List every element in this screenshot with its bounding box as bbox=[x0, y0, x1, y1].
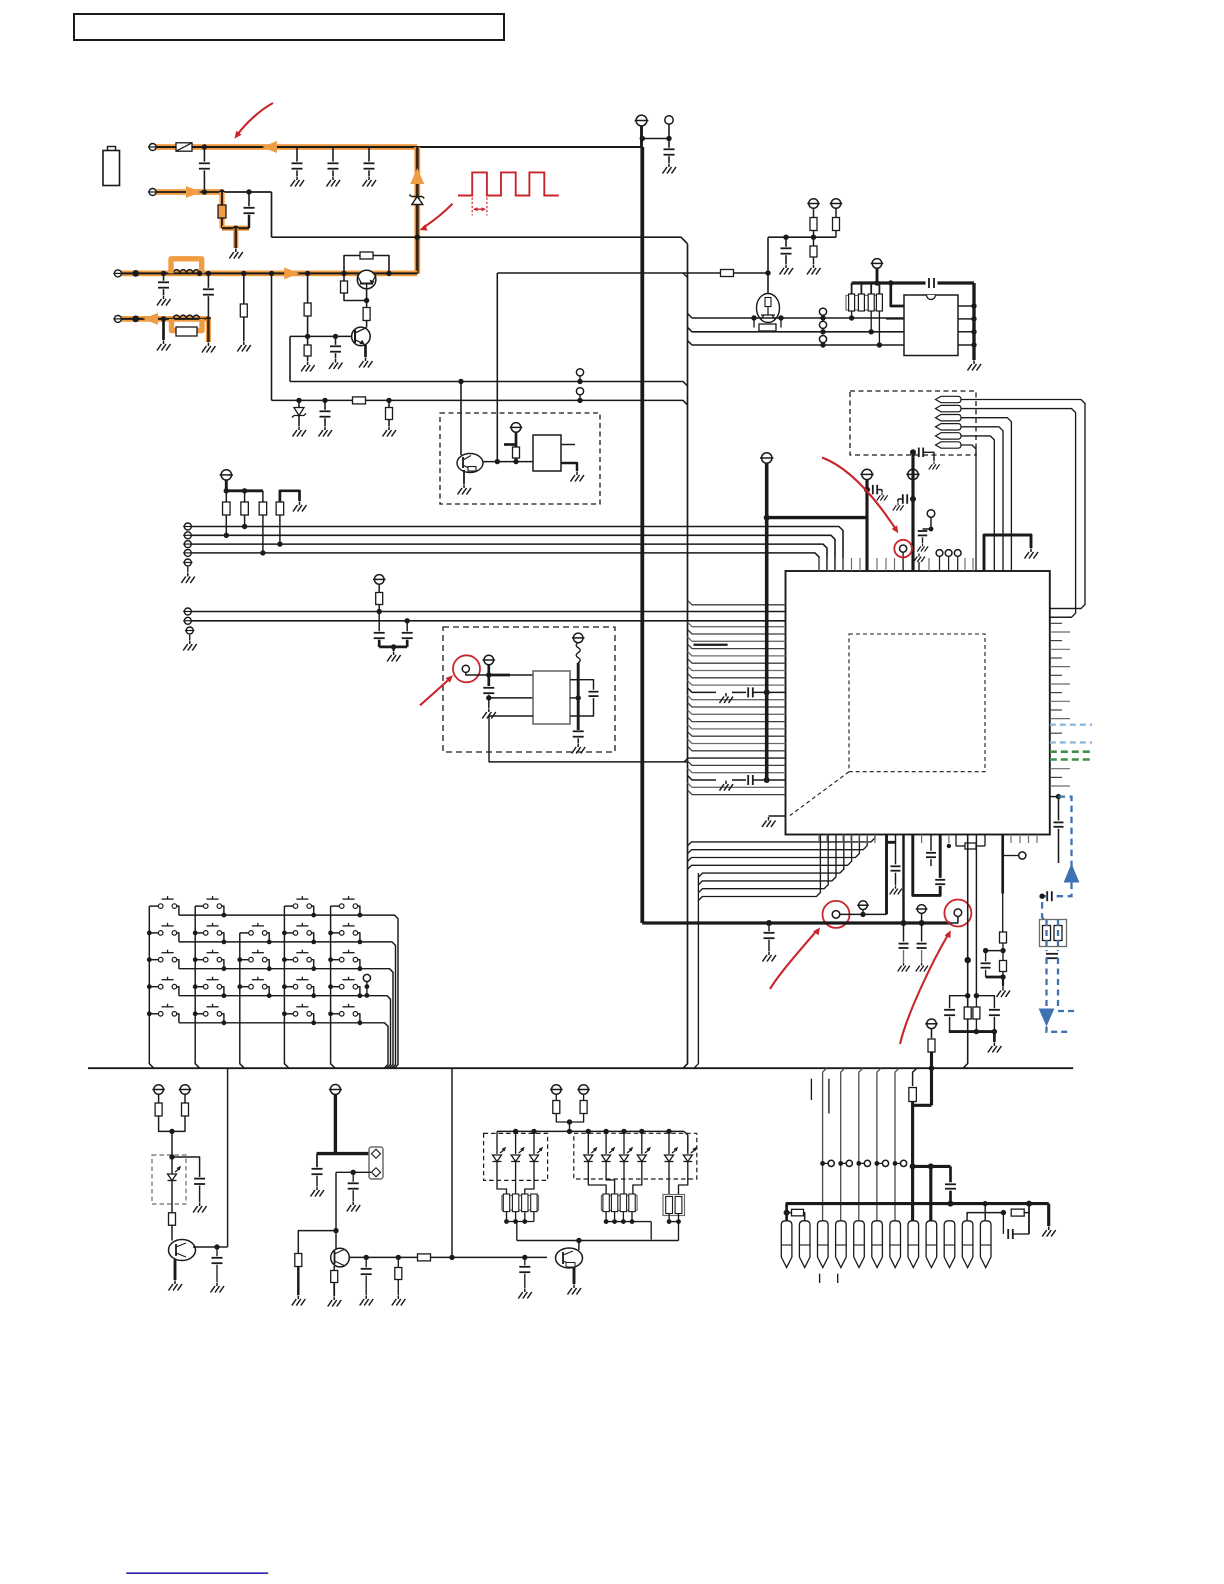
wire below to ground bbox=[488, 698, 490, 708]
IC right pin y701 bbox=[1050, 700, 1070, 702]
node x497 y461 bbox=[495, 459, 500, 464]
dashed box oscillator X1 bbox=[440, 413, 600, 504]
wire mic feed vertical x768 bbox=[767, 237, 769, 294]
IC right pin green y751.7 bbox=[1050, 750, 1092, 753]
ground for C4 bbox=[363, 177, 377, 187]
keypad row 4 switches bbox=[149, 986, 158, 988]
terminal T9 bbox=[831, 199, 841, 209]
keypad row 5 switches bbox=[149, 1013, 158, 1015]
capacitor C5 x249 bbox=[248, 192, 250, 206]
U3 pin1 wire thick bbox=[891, 283, 904, 306]
IC left pin 17 y722 bbox=[688, 717, 786, 722]
IC left pin 12 y685 bbox=[688, 681, 786, 686]
blue bottom L bbox=[1047, 1027, 1072, 1032]
node bank x244 bbox=[242, 488, 247, 493]
ground C31 bbox=[193, 1203, 207, 1213]
contact pin 5 bbox=[936, 433, 962, 439]
thick corner down x974 bbox=[972, 283, 975, 360]
red arrow 2 to x417 bbox=[424, 204, 453, 228]
dashed box PLL X2 bbox=[443, 627, 615, 752]
resistor pack RP1 bbox=[502, 1196, 539, 1211]
node trunk x921 bbox=[919, 920, 925, 926]
wire line1 black core bbox=[153, 146, 643, 148]
terminal TPG bbox=[184, 617, 191, 624]
wire line4 orange highlight bbox=[118, 316, 208, 322]
capacitor C19 row y780 bbox=[747, 775, 749, 785]
wire line3 orange highlight bbox=[118, 270, 417, 276]
wire IC pin x976 vertical bbox=[975, 835, 977, 996]
node line3 x307 bbox=[305, 271, 310, 276]
red circle annotation c3 bbox=[453, 655, 480, 682]
testpoint TP931 bbox=[927, 510, 935, 518]
wire IC pin x895 cap gnd bbox=[895, 835, 897, 865]
bus drop vertical x452 bbox=[451, 1068, 453, 1257]
IR LED D3 bbox=[168, 1167, 181, 1181]
node line4 x163 bbox=[161, 316, 166, 321]
terminal TPD bbox=[184, 549, 191, 556]
wire tap to C10 bbox=[642, 138, 669, 140]
resistor R2 x243 bbox=[243, 273, 245, 341]
wire IC pin x903.5 to trunk bbox=[902, 835, 904, 924]
capacitor C37 x950 bbox=[949, 1166, 952, 1182]
wire Q6 emitter thick bbox=[573, 1268, 576, 1285]
thick branch y517 to IC top bbox=[767, 516, 867, 519]
contact wire 4 down x1003 bbox=[961, 427, 1003, 571]
resistor R29 bbox=[397, 1257, 399, 1267]
terminal T18 small bbox=[859, 901, 868, 910]
thick bar y1153 bbox=[317, 1152, 372, 1155]
mic lines y318 bbox=[688, 314, 905, 319]
thick wire T17 vertical bbox=[911, 452, 914, 571]
filter bracket left leg bbox=[950, 996, 968, 1009]
IC left pin 20 y744 bbox=[688, 739, 786, 744]
resistor R10 x389 bbox=[388, 400, 390, 426]
capacitor C33 bbox=[316, 1154, 318, 1168]
thick L pin x1002.7 bbox=[1001, 835, 1004, 894]
resistor R22 x1003 bbox=[1000, 932, 1007, 943]
ground-up pin x919 bbox=[918, 562, 920, 571]
IC left pin 5 y634 bbox=[688, 630, 786, 635]
testpoint above line381 bbox=[579, 376, 581, 382]
node line3 x199 bbox=[197, 271, 202, 276]
node line400 x325 bbox=[322, 398, 327, 403]
IC left pin 24 y773 bbox=[688, 768, 786, 773]
thick wire T14 down bbox=[577, 663, 580, 730]
resistor R17 bbox=[225, 491, 227, 536]
IC left pin 27 y795 bbox=[688, 790, 786, 795]
resistor R6 between Q1 Q2 bbox=[366, 301, 368, 328]
thick hoop R20 bbox=[280, 491, 300, 502]
wire x497 from line273 down to box bbox=[496, 273, 498, 462]
node lineC x279 bbox=[277, 541, 282, 546]
oscillator transistor Q3 shielded bbox=[457, 454, 483, 473]
node U mid bbox=[391, 644, 396, 649]
thick bar y842 under IC bbox=[887, 841, 896, 844]
resistor pack RP3 bbox=[663, 1195, 685, 1216]
terminal TPB bbox=[184, 532, 191, 539]
node x967 y995 bbox=[965, 993, 970, 998]
blue dashed twin verticals bbox=[1045, 958, 1047, 1008]
LED feed line y1131 bbox=[497, 1130, 684, 1132]
capacitor C12 thick y283 bbox=[928, 278, 930, 288]
line E y611.5 to IC bbox=[188, 611, 786, 613]
node line3 x389 bbox=[386, 271, 391, 276]
thick bar y1166 bbox=[913, 1165, 951, 1168]
node x863 y914 bbox=[860, 912, 865, 917]
node line2 x204 bbox=[202, 189, 207, 194]
LED D12 group2 bbox=[687, 1152, 689, 1154]
transistor Q1 bbox=[357, 270, 376, 289]
contact wire 2 to loop x1075 bbox=[961, 409, 1076, 618]
chamfer line273 branch bbox=[683, 273, 688, 278]
IC left pin 14 y700 bbox=[688, 695, 786, 700]
IC left pin 16 y714 bbox=[688, 710, 786, 715]
terminal T16 bbox=[862, 469, 872, 479]
IC right pin y623 bbox=[1050, 622, 1062, 624]
contact wire 3 down x1011 bbox=[961, 418, 1011, 571]
IC left pin 10 y670 bbox=[688, 666, 786, 671]
ground C25 bbox=[898, 963, 910, 972]
array bottom leads bbox=[851, 311, 853, 318]
IC U1 inner dashed die bbox=[849, 634, 985, 772]
red arrow 5 to TP836 bbox=[770, 932, 816, 990]
IC right pin y777 bbox=[1050, 776, 1062, 778]
node feed x569 bbox=[567, 1129, 572, 1134]
ground R2 bbox=[237, 342, 251, 352]
IC bottom staircase pin x875 bbox=[688, 835, 876, 846]
node line381 x580 bbox=[577, 379, 582, 384]
wire T5 down bbox=[515, 432, 518, 462]
node R11 bottom bbox=[513, 459, 518, 464]
connector pin verticals from trunk bbox=[823, 1068, 827, 1221]
dark stub line y644.7 bbox=[694, 644, 728, 646]
LED D11 group2 bbox=[668, 1131, 670, 1154]
blue path through resistors bbox=[1045, 920, 1047, 951]
keypad row 1 switches bbox=[149, 905, 158, 907]
orange arrow left line4 bbox=[143, 313, 158, 325]
node lineE x379 bbox=[377, 609, 382, 614]
ground Q2 bbox=[359, 358, 373, 368]
resistor R26 bbox=[169, 1213, 176, 1226]
node lineA x244 bbox=[242, 524, 247, 529]
pin11 wire resistor R35 bbox=[967, 1213, 1003, 1221]
IC bottom staircase pin x859 bbox=[688, 835, 860, 862]
thick wire T13 to U4 bbox=[489, 674, 510, 677]
capacitor C8 x335 bbox=[335, 336, 337, 344]
capacitor C4 to gnd at x369 bbox=[368, 147, 370, 162]
IC right pin y617.2 bbox=[1050, 616, 1072, 618]
contact wire 5 down x994 bbox=[961, 436, 994, 571]
contact pin 3 bbox=[936, 415, 962, 421]
LED D8 group2 bbox=[605, 1131, 607, 1154]
ground C9 bbox=[319, 427, 333, 437]
wire Q3 emitter gnd bbox=[463, 470, 465, 484]
node line400 x299 bbox=[296, 398, 301, 403]
resistor R23 branch bbox=[1002, 943, 1004, 977]
ground R7 bbox=[301, 362, 315, 372]
capacitor C27 in U right leg bbox=[935, 879, 945, 881]
capacitor C21 left of T17 bbox=[902, 494, 904, 504]
terminal TPH grounded bbox=[186, 627, 193, 634]
node x217 y1247 bbox=[214, 1244, 219, 1249]
ground x208 bbox=[202, 343, 216, 353]
wire x172 down bbox=[171, 1131, 173, 1240]
ground R27 bbox=[292, 1296, 306, 1306]
wire x217 to bus drop x227 bbox=[217, 1246, 228, 1248]
wire line y400 bbox=[272, 400, 688, 405]
terminal T23 bbox=[552, 1085, 562, 1095]
ground hoop bbox=[293, 502, 307, 512]
fuse F1 bbox=[176, 143, 192, 151]
IC bottom staircase pin x828 bbox=[698, 835, 828, 893]
orange arrow right on line2 bbox=[186, 186, 201, 198]
array resistor bar 2 bbox=[858, 294, 864, 311]
resistor R15 under T9 bbox=[835, 208, 837, 237]
ground T14 bbox=[572, 744, 586, 754]
IC left pin 6 y641 bbox=[688, 637, 786, 642]
testpoint TP y345 bbox=[822, 342, 824, 345]
wire x1002 to branch bbox=[1002, 894, 1004, 933]
thick trunk y923 bbox=[642, 921, 950, 924]
branch bar y950 bbox=[986, 950, 1003, 952]
red circled testpoint TP903 bbox=[902, 552, 904, 571]
terminal T24 bbox=[579, 1085, 589, 1095]
capacitor C23 bbox=[918, 530, 928, 532]
IC right pin y710 bbox=[1050, 709, 1062, 711]
testpoint TP1022 bbox=[1003, 855, 1019, 857]
thick bar y977 bbox=[986, 976, 1004, 979]
wire TP836 to x886 bbox=[840, 913, 887, 915]
IC right pin y632 bbox=[1050, 631, 1070, 633]
node lineD x262 bbox=[260, 550, 265, 555]
red circle annotation c2 bbox=[944, 900, 971, 927]
node bank x226 bbox=[224, 488, 229, 493]
mic line y331.8 bbox=[688, 327, 905, 332]
IC right pin y641 bbox=[1050, 640, 1062, 642]
node x172 y1157 bbox=[169, 1154, 174, 1159]
resistor R19 bbox=[262, 491, 264, 553]
pin12 stub bbox=[984, 1204, 986, 1221]
IC left pin 21 y751 bbox=[688, 746, 786, 751]
terminal T15 power bbox=[762, 453, 772, 463]
resistor R5 base of Q1 bbox=[343, 273, 345, 294]
cap C16 parallel right bbox=[578, 680, 593, 690]
node rail x578 bbox=[576, 1238, 581, 1243]
IC left pin 1 y605 bbox=[688, 600, 786, 605]
node line400 x389 bbox=[386, 398, 391, 403]
IC right pin y608.5 bbox=[1050, 608, 1081, 610]
orange bridge under L2 bbox=[172, 319, 203, 331]
node line3 x208 bbox=[206, 271, 211, 276]
node bus x642 y138 bbox=[640, 136, 645, 141]
node line2 x249 bbox=[246, 189, 251, 194]
orange arrow right line3 bbox=[284, 267, 299, 279]
ground Q5 bbox=[328, 1297, 342, 1307]
thick U cap bottoms bbox=[379, 646, 407, 649]
keypad row 1 line bbox=[179, 915, 398, 1068]
capacitor C14 bbox=[406, 621, 408, 632]
node line381 x461 bbox=[458, 379, 463, 384]
node lineF x407 bbox=[405, 618, 410, 623]
IC U4 PLL bbox=[533, 671, 570, 724]
battery BT1 bbox=[108, 147, 116, 152]
wire main vertical bus x642 bbox=[640, 147, 644, 923]
mic leg nodes bbox=[751, 315, 756, 320]
capacitor C6 x163 bbox=[163, 273, 165, 280]
testpoint TP y318 bbox=[822, 315, 824, 318]
keypad testpoint col5 row4 bbox=[363, 974, 370, 981]
node T10 bus bbox=[874, 280, 879, 285]
keypad row 2 switches bbox=[149, 932, 158, 934]
ground C24 bbox=[763, 952, 777, 962]
capacitor C26 x921 below trunk bbox=[921, 923, 923, 942]
node thickline y780 bbox=[764, 777, 770, 783]
IC right pin y769 bbox=[1050, 768, 1070, 770]
LED D7 group2 bbox=[587, 1131, 589, 1154]
wire TP958 to trunk end bbox=[950, 917, 958, 924]
ground Q3 bbox=[458, 485, 472, 495]
wire Q2 base bbox=[290, 335, 352, 337]
wire corner x271 line2 to line237 bbox=[271, 192, 273, 237]
dashed box LED group1 bbox=[484, 1133, 548, 1180]
resistor pack RP2 bbox=[601, 1196, 637, 1211]
node line4 x135 bbox=[132, 316, 139, 323]
IC left pin 4 y627 bbox=[688, 622, 786, 627]
capacitor C30 below pair bbox=[1046, 953, 1058, 955]
ground C36 bbox=[518, 1289, 532, 1299]
blue path left continue bbox=[1042, 896, 1047, 920]
IC left pin 11 y678 bbox=[688, 673, 786, 678]
wire IC pin x886 thick bbox=[885, 835, 888, 915]
wire thick vertical x767 bbox=[765, 463, 769, 780]
keypad row 3 line bbox=[179, 969, 393, 1068]
terminal T3 bbox=[114, 270, 121, 277]
thick wire x930 to pin9 bbox=[929, 1166, 932, 1220]
pack2 pack3 bottoms rail bbox=[605, 1212, 607, 1222]
wire Q4 emitter thick bbox=[174, 1260, 177, 1281]
IC right pin y667 bbox=[1050, 666, 1070, 668]
wire J1 lower pin left bbox=[336, 1171, 371, 1173]
orange bridge over L1 bbox=[171, 259, 202, 274]
LED D6 group1 bbox=[533, 1131, 535, 1154]
bus drop vertical x227 bbox=[227, 1068, 229, 1247]
wire thick vertical x417 orange bbox=[414, 147, 420, 274]
node x353 y1172 bbox=[351, 1170, 356, 1175]
resistor R24 bbox=[158, 1094, 160, 1103]
ground for C2 bbox=[291, 177, 305, 187]
node T17 top y452 bbox=[910, 449, 916, 455]
capacitor C7 x208 to line4 bbox=[207, 273, 209, 287]
IC top gray pins bbox=[818, 558, 820, 571]
blue resistor pair box bbox=[1040, 920, 1067, 947]
ground under bar bbox=[229, 249, 243, 259]
red circled testpoint TP836 bbox=[832, 911, 840, 919]
node x398 y1257 bbox=[396, 1255, 401, 1260]
wire x336 to Q5 bbox=[335, 1231, 337, 1249]
wire Q5 collector line y1257 bbox=[349, 1256, 547, 1258]
terminal T6 top of bus bbox=[636, 115, 647, 126]
wire Q2 emitter to ground bbox=[364, 345, 367, 357]
dashed box LED group2 bbox=[574, 1133, 697, 1179]
contact pin 4 bbox=[936, 424, 962, 430]
pack1 bottoms bbox=[506, 1212, 508, 1222]
inductor L2 line4 bbox=[173, 315, 199, 319]
wire IC pin x931 cap bbox=[930, 835, 932, 851]
ground filter bbox=[988, 1043, 1002, 1053]
ground C10 bbox=[663, 164, 677, 174]
node x452 y1257 bbox=[449, 1255, 454, 1260]
red arrow 1 to line1 bbox=[238, 103, 274, 135]
IC U2 in osc box bbox=[533, 435, 561, 471]
capacitor C36 bbox=[524, 1257, 526, 1265]
connector link dots and circles y1163 bbox=[820, 1161, 825, 1166]
speaker connector J1 bbox=[369, 1147, 383, 1179]
blue arrow up triangle bbox=[1064, 864, 1080, 883]
terminal T22 bbox=[330, 1085, 340, 1095]
node on line1 at x204 bbox=[202, 144, 207, 149]
ground C22 bbox=[929, 462, 940, 470]
red circled testpoint TP958 bbox=[954, 909, 962, 917]
wire y698 to U4 bbox=[489, 697, 533, 699]
IC right pin y693 bbox=[1050, 692, 1062, 694]
resistor array RA1 bbox=[846, 296, 881, 311]
blue stub right y1011 bbox=[1058, 1010, 1078, 1012]
ground x163 line4 bbox=[157, 341, 171, 351]
wire Q4 collector bbox=[193, 1246, 217, 1248]
node line3 x243 bbox=[241, 271, 246, 276]
ground C11 bbox=[780, 265, 794, 275]
keypad row 2 line bbox=[179, 942, 396, 1068]
IC right pin y675 bbox=[1050, 674, 1062, 676]
resistor R12 inline y273 bbox=[721, 270, 734, 277]
capacitor C28 branch bbox=[985, 951, 987, 962]
node line3 x163 bbox=[161, 271, 166, 276]
node x976 y995 bbox=[974, 993, 979, 998]
transistor Q2 bbox=[352, 327, 371, 346]
IC bottom gray pins bbox=[818, 835, 820, 844]
wire black vertical x1058 with cap bbox=[1058, 797, 1060, 821]
4-line group line B y535.3 bbox=[188, 535, 835, 571]
wire line273 mic segment bbox=[497, 272, 768, 274]
red pulse waveform bbox=[458, 172, 559, 195]
wire x461 down into box bbox=[460, 382, 462, 456]
node T13 y675 bbox=[486, 672, 491, 677]
tick marks above pins bbox=[810, 1079, 812, 1100]
ground C34 bbox=[347, 1202, 361, 1212]
resistor R3 x307 bbox=[307, 273, 309, 336]
node rail x976 bbox=[974, 1029, 979, 1034]
dashed box contacts X3 bbox=[850, 391, 976, 455]
wire IC gnd pin y816 bbox=[769, 815, 786, 817]
IC left pin 15 y707 bbox=[688, 703, 786, 708]
resistor R30 inline bbox=[418, 1254, 431, 1261]
terminal T14 coil bbox=[573, 633, 583, 643]
IC U3 8pin bbox=[904, 295, 958, 356]
IC U1 main body bbox=[786, 571, 1050, 835]
decoupling pin row y692 bbox=[688, 688, 717, 693]
terminal bank thick bus y490 bbox=[226, 489, 263, 492]
terminal T20 bbox=[154, 1085, 164, 1095]
wire to C31 bbox=[172, 1157, 200, 1177]
LED D10 group2 bbox=[641, 1131, 643, 1154]
contact pin 6 bbox=[936, 442, 962, 448]
terminal T12 with resistor bbox=[374, 575, 384, 585]
wire thick vertical x417 dark core bbox=[416, 147, 419, 274]
terminal T1 bbox=[149, 144, 156, 151]
node Q1 emitter junction bbox=[364, 298, 369, 303]
IC left pin 26 y787 bbox=[688, 783, 786, 788]
array resistor bar 3 bbox=[868, 294, 874, 311]
